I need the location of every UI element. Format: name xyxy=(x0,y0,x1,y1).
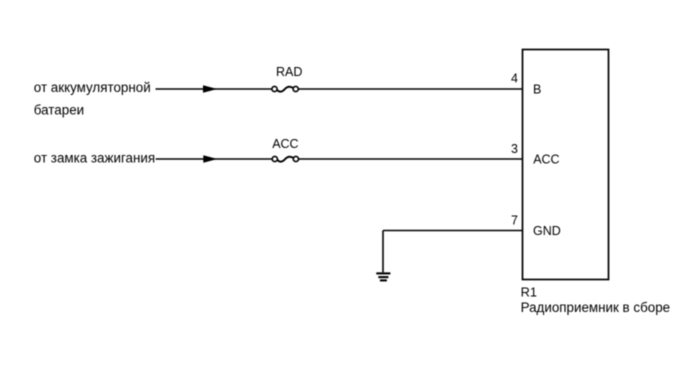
component R1 radio receiver box xyxy=(523,50,609,280)
svg-text:Радиоприемник в сборе: Радиоприемник в сборе xyxy=(521,300,671,315)
svg-text:3: 3 xyxy=(511,142,518,156)
arrow: flow direction on battery wire xyxy=(203,85,217,93)
wire: ignition feed left segment xyxy=(156,158,273,160)
arrow: flow direction on ignition wire xyxy=(203,155,217,163)
wire: ground horizontal segment from pin 7 xyxy=(383,230,523,232)
node label: от аккумуляторной батареи xyxy=(34,80,151,118)
ground xyxy=(376,273,390,280)
svg-text:B: B xyxy=(533,83,541,97)
wire: battery feed right segment to pin 4 xyxy=(298,88,522,90)
fuse RAD xyxy=(272,86,298,91)
svg-text:ACC: ACC xyxy=(533,152,559,166)
svg-text:GND: GND xyxy=(533,224,561,238)
svg-text:R1: R1 xyxy=(521,284,537,299)
svg-text:ACC: ACC xyxy=(272,137,298,151)
svg-text:4: 4 xyxy=(511,71,518,85)
svg-text:батареи: батареи xyxy=(34,103,84,118)
svg-text:от замка зажигания: от замка зажигания xyxy=(34,151,155,166)
svg-text:7: 7 xyxy=(511,214,518,228)
svg-text:от аккумуляторной: от аккумуляторной xyxy=(34,80,151,95)
wire: ground vertical drop xyxy=(382,231,384,273)
wire: ignition feed right segment to pin 3 xyxy=(298,158,522,160)
fuse ACC xyxy=(272,156,298,161)
wire: battery feed left segment xyxy=(156,88,273,90)
svg-text:RAD: RAD xyxy=(276,65,302,79)
